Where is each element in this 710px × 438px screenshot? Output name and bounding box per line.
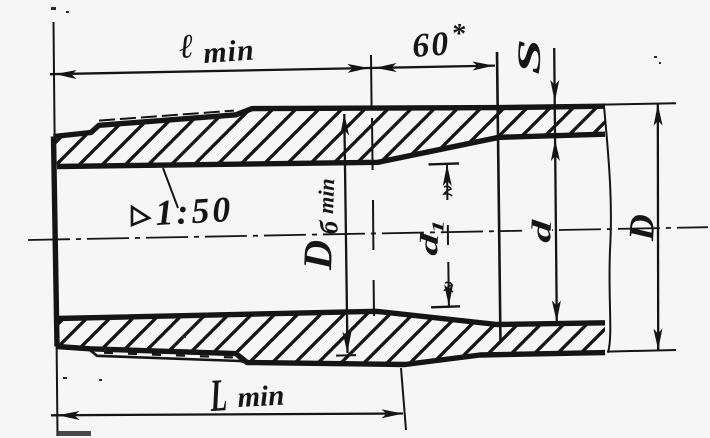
- inner bore bottom edge with taper: [57, 311, 605, 324]
- D dimension extension line top: [602, 103, 676, 104]
- arrow L min left: [58, 411, 80, 420]
- arrow D6min up: [340, 114, 349, 136]
- thread flank dashes (bottom): [104, 353, 238, 358]
- svg-text:min: min: [313, 178, 339, 214]
- break line at right (wavy): [604, 106, 611, 352]
- centerline gap under d label: [522, 225, 552, 235]
- extension line for bottom L min at x=405: [401, 368, 406, 430]
- D dimension extension line bottom: [607, 350, 676, 352]
- taper leader line to 1:50 label: [163, 168, 178, 208]
- svg-text:S: S: [510, 38, 548, 75]
- svg-text:D: D: [294, 239, 341, 271]
- top dimension line (l min + 60*): [50, 66, 495, 75]
- svg-text:d: d: [414, 232, 444, 257]
- arrow d1 down: [444, 284, 453, 306]
- taper symbol triangle: [132, 207, 149, 225]
- svg-text:D: D: [621, 213, 662, 242]
- left extension line: [54, 22, 58, 436]
- label D (rotated): [621, 213, 662, 242]
- D6min vertical dimension line: [344, 114, 347, 353]
- arrow l min right: [347, 64, 369, 73]
- d1 bottom reference dash: [431, 306, 460, 307]
- top thread crest thin line: [99, 111, 234, 121]
- svg-text:1: 1: [429, 219, 448, 234]
- svg-text:L: L: [208, 370, 228, 422]
- inner bore top edge with taper: [57, 134, 605, 166]
- arrow D down: [653, 328, 662, 350]
- pipe left end face: [54, 137, 58, 347]
- outer top profile: [54, 106, 606, 136]
- extension line at base plane x=498: [497, 52, 501, 343]
- arrow d1 up: [443, 164, 452, 186]
- svg-text:ℓ: ℓ: [178, 28, 195, 66]
- arrow D up: [653, 104, 662, 126]
- arrow l min left: [55, 70, 77, 79]
- arrow S bottom / d top pointing up: [551, 139, 560, 161]
- svg-text:*: *: [450, 18, 467, 50]
- tolerance tick near d1 top arrow: [444, 186, 452, 196]
- S / d shared vertical dimension line: [554, 48, 557, 322]
- label D6 min (rotated): [294, 177, 345, 271]
- arrow 60 left: [375, 63, 397, 72]
- outer bottom profile: [57, 347, 605, 365]
- arrow 60 right: [472, 61, 494, 70]
- svg-text:min: min: [202, 33, 256, 70]
- label d (rotated): [526, 218, 558, 244]
- centerline dash-dot: [28, 227, 708, 240]
- svg-text:d: d: [526, 218, 558, 244]
- svg-text:60: 60: [411, 25, 451, 65]
- arrow D6min down: [343, 331, 352, 353]
- d1 vertical dimension line (partly dashed): [447, 165, 449, 307]
- label d1 (rotated): [414, 218, 448, 256]
- D6min bottom reference dash: [336, 354, 356, 357]
- svg-text:min: min: [237, 380, 285, 414]
- arrow L min right: [381, 409, 403, 418]
- extension line at taper start x=371: [371, 55, 374, 316]
- d1 top reference dash: [429, 163, 460, 164]
- D vertical dimension line: [657, 104, 660, 350]
- svg-text:1:50: 1:50: [154, 189, 234, 233]
- tolerance tick near d1 bottom arrow: [445, 282, 453, 292]
- bottom dimension line L min: [51, 414, 403, 416]
- arrow S top pointing down: [550, 80, 559, 102]
- arrow d bottom pointing down: [552, 300, 561, 322]
- svg-text:б: б: [314, 219, 343, 234]
- bottom thread crest thin line with chamfer: [88, 349, 247, 363]
